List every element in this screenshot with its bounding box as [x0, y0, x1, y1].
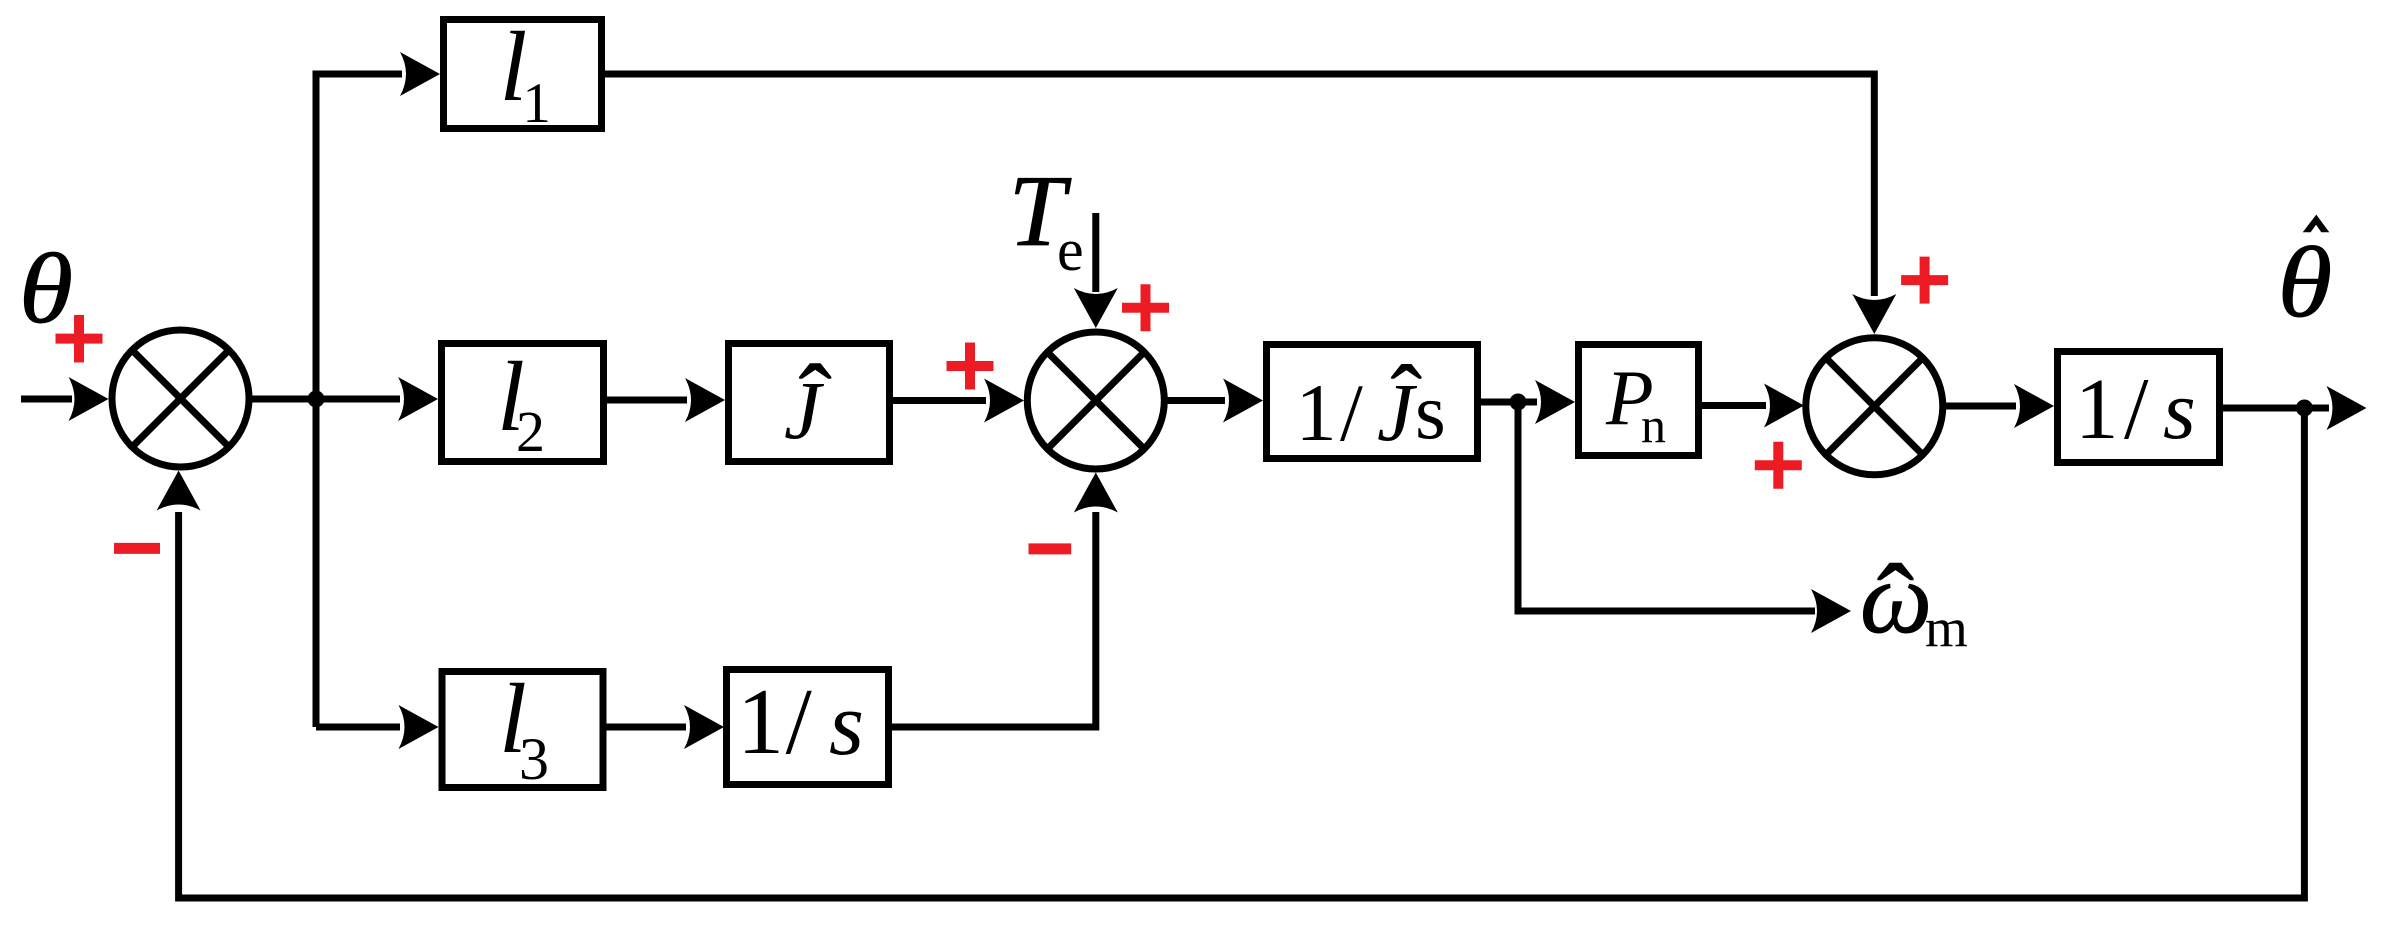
block 1/Js — [1267, 345, 1478, 459]
svg-text:n: n — [1641, 397, 1666, 453]
block 1/s bottom — [727, 670, 889, 785]
svg-text:θ: θ — [2278, 226, 2333, 338]
svg-text:/: / — [2124, 361, 2149, 458]
svg-text:s: s — [829, 675, 864, 774]
svg-text:ˆ: ˆ — [1877, 542, 1915, 667]
svg-text:1: 1 — [2075, 360, 2119, 457]
svg-text:2: 2 — [516, 399, 545, 464]
summing junction S2 — [1027, 332, 1164, 469]
svg-text:e: e — [1057, 217, 1084, 283]
svg-text:θ: θ — [19, 233, 73, 344]
node output junction dot — [2296, 400, 2313, 417]
node branch junction dot — [308, 391, 325, 408]
svg-text:m: m — [1925, 597, 1968, 658]
summing junction S3 — [1806, 338, 1943, 475]
wire 1/s bottom up into S2 — [892, 512, 1096, 727]
wire branch to l1 — [313, 71, 403, 78]
svg-text:1: 1 — [522, 72, 551, 135]
svg-text:1: 1 — [737, 670, 784, 774]
block l1 — [444, 20, 602, 129]
wire 1/s to output theta-hat — [2223, 405, 2329, 412]
wire S3 to block 1/s — [1943, 403, 2016, 410]
plus sign at left input of S3 — [1755, 442, 1802, 489]
wire S2 to block 1/Js — [1164, 397, 1225, 404]
block l2 — [442, 344, 604, 462]
wire input theta to S1 — [21, 396, 72, 403]
minus sign at feedback input of S1 — [114, 543, 160, 554]
wire Pn to S3 — [1702, 402, 1766, 409]
plus sign at input of summing junction S1 — [56, 315, 103, 363]
svg-text:ˆ: ˆ — [799, 344, 832, 455]
plus sign at Te input of S2 — [1122, 284, 1169, 331]
summing junction S1 — [112, 330, 249, 467]
wire S1 to branch node to l2 — [249, 396, 400, 403]
minus sign at bottom input of S2 — [1029, 543, 1072, 554]
plus sign at top input of S3 — [1901, 257, 1948, 304]
block Jhat — [729, 344, 890, 462]
wire node to omega_m output — [1518, 402, 1815, 611]
svg-text:/: / — [1340, 367, 1363, 458]
svg-text:s: s — [1415, 369, 1446, 456]
wire Jhat to S2 — [893, 397, 986, 404]
plus sign at left input of S2 — [947, 343, 994, 390]
svg-text:/: / — [786, 670, 813, 774]
wire l1 to S3 top — [605, 74, 1874, 296]
block l3 — [442, 672, 603, 788]
wire l3 to 1/s bottom — [607, 724, 687, 731]
wire branch to l3 — [316, 724, 400, 731]
wire l2 to Jhat — [607, 397, 687, 404]
block 1/s top right — [2058, 352, 2220, 463]
wire 1/Js to node to Pn — [1481, 399, 1537, 406]
wire branch vertical — [313, 74, 320, 727]
wire feedback from output down and back to S1 — [179, 408, 2305, 898]
svg-text:1: 1 — [1296, 367, 1337, 458]
block Pn — [1579, 345, 1699, 456]
wire Te into S2 top — [1092, 213, 1099, 292]
node omega branch dot — [1510, 394, 1527, 411]
svg-text:3: 3 — [519, 726, 549, 792]
svg-text:s: s — [2163, 364, 2196, 457]
